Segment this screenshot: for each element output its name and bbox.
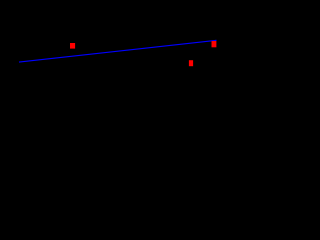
- blue trend line: [19, 40, 217, 62]
- red marker 2: [189, 60, 193, 66]
- chart canvas: [0, 0, 218, 164]
- red marker 3: [212, 41, 217, 47]
- red marker 1: [70, 43, 75, 49]
